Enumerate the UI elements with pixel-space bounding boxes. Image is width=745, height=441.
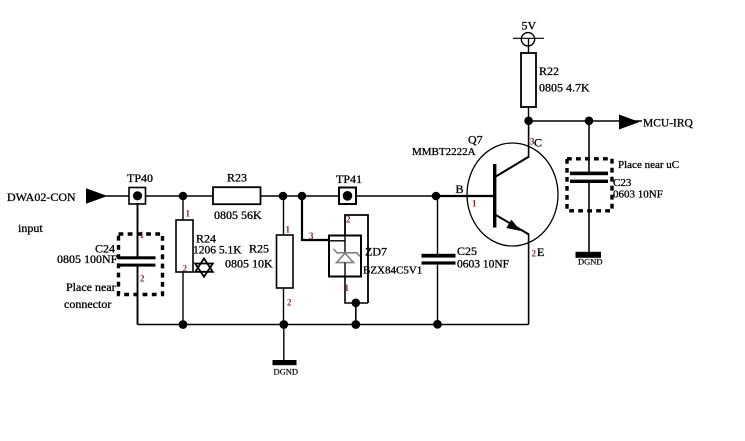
resistor R25 wire [283, 196, 285, 235]
resistor R25 [225, 225, 293, 308]
svg-text:R22: R22 [539, 64, 559, 78]
wire [146, 195, 214, 197]
svg-text:R24: R24 [196, 232, 216, 246]
no-stuff star symbol [195, 259, 213, 277]
svg-text:C25: C25 [457, 244, 477, 258]
node junction [351, 320, 360, 329]
wire [283, 288, 285, 325]
capacitor C25 [422, 244, 510, 271]
wire [137, 266, 139, 325]
node junction [432, 192, 441, 201]
svg-text:connector: connector [64, 297, 111, 311]
node junction [352, 299, 361, 308]
resistor R23 [213, 171, 262, 223]
power 5V [513, 19, 544, 47]
capacitor C23 [570, 172, 663, 201]
svg-text:5V: 5V [522, 19, 537, 33]
wire [437, 265, 439, 325]
capacitor C24 [57, 230, 156, 284]
svg-text:2: 2 [140, 274, 145, 284]
placement dashed box for C24 [119, 234, 163, 295]
svg-text:DGND: DGND [274, 367, 299, 377]
wire [182, 272, 184, 325]
transistor Q7 [412, 133, 558, 260]
ground bus wire [138, 324, 529, 326]
node junction [298, 192, 307, 201]
svg-text:0805 4.7K: 0805 4.7K [539, 81, 590, 95]
ground DGND left [273, 325, 299, 377]
zener loop wire pin 2 [345, 215, 368, 304]
capacitor C23 wire [588, 121, 590, 172]
svg-text:Place near uC: Place near uC [618, 159, 679, 171]
wire [356, 195, 436, 197]
svg-text:2: 2 [346, 215, 351, 225]
node junction [585, 117, 594, 126]
svg-text:1: 1 [186, 209, 191, 219]
capacitor C25 wire [437, 196, 439, 254]
resistor R24 wire [182, 196, 184, 220]
svg-text:2: 2 [287, 298, 292, 308]
zener diode ZD7 [329, 236, 422, 277]
svg-text:E: E [537, 245, 544, 259]
svg-text:3: 3 [309, 231, 314, 241]
collector wire [528, 121, 530, 158]
test point TP41 [336, 172, 362, 204]
svg-text:DWA02-CON: DWA02-CON [7, 190, 76, 204]
svg-text:0805 10K: 0805 10K [225, 257, 273, 271]
node junction [433, 320, 442, 329]
wire [106, 195, 129, 197]
svg-text:TP41: TP41 [336, 172, 362, 186]
resistor R22 [521, 53, 590, 107]
svg-text:0603 10NF: 0603 10NF [457, 259, 509, 271]
wire [261, 195, 340, 197]
output port MCU-IRQ [619, 115, 694, 130]
svg-text:B: B [456, 182, 464, 196]
wire [588, 183, 590, 252]
zener ZD7 pin 3 wire [302, 196, 329, 240]
node junction [179, 320, 188, 329]
svg-text:MMBT2222A: MMBT2222A [412, 146, 476, 158]
node junction [524, 117, 533, 126]
placement dashed box for C23 [567, 159, 612, 211]
wire MCU-IRQ net [529, 120, 643, 122]
svg-text:1206 5.1K: 1206 5.1K [193, 245, 242, 257]
node junction [279, 320, 288, 329]
svg-text:R25: R25 [249, 242, 269, 256]
svg-text:R23: R23 [227, 171, 247, 185]
wire [528, 39, 530, 53]
input port DWA02-CON [7, 188, 108, 235]
svg-text:1: 1 [472, 199, 477, 209]
svg-text:input: input [18, 221, 43, 235]
svg-text:TP40: TP40 [127, 171, 153, 185]
test point TP40 [127, 171, 153, 204]
svg-text:C: C [534, 136, 542, 150]
node junction [279, 192, 288, 201]
svg-text:1: 1 [286, 225, 291, 235]
resistor R24 [176, 209, 242, 274]
svg-text:2: 2 [532, 249, 537, 259]
wire base of Q7 [436, 195, 494, 197]
svg-text:0805 100NF: 0805 100NF [57, 252, 118, 266]
svg-text:DGND: DGND [578, 257, 603, 267]
emitter wire [528, 234, 530, 325]
svg-text:0805 56K: 0805 56K [214, 208, 262, 222]
note text [64, 280, 116, 311]
wire to ground bus [355, 303, 357, 325]
ground DGND right [576, 252, 603, 267]
capacitor C24 branch wire [137, 203, 139, 257]
svg-text:C23: C23 [613, 177, 632, 189]
node junction [179, 192, 188, 201]
zener pin 1 wire [345, 277, 369, 304]
svg-text:BZX84C5V1: BZX84C5V1 [363, 265, 422, 277]
svg-text:MCU-IRQ: MCU-IRQ [643, 118, 694, 130]
svg-text:Place near: Place near [66, 280, 116, 294]
svg-text:1: 1 [345, 283, 350, 293]
svg-text:Q7: Q7 [468, 133, 483, 147]
wire [528, 107, 530, 121]
svg-text:0603 10NF: 0603 10NF [613, 189, 663, 201]
